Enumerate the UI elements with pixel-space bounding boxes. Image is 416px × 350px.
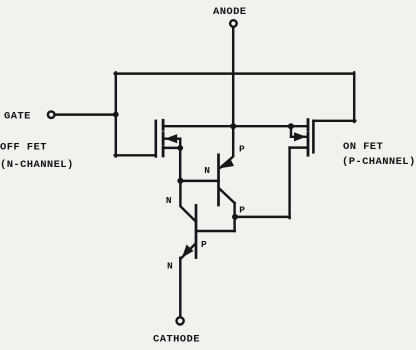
on FET gate plate [312,121,315,153]
npn emitter arrow [182,245,194,258]
on FET drain bar [290,146,308,148]
pnp collector diagonal [220,189,235,203]
off FET source bar [163,147,180,149]
wire: left gate horizontal to OFF-FET plate [115,154,156,156]
wire: N node to pnp base [180,180,218,182]
wire: left gate vertical [115,73,117,157]
node: anode-rail junction dot [230,123,236,129]
npn transistor base bar [195,205,198,257]
on FET body arrow [294,132,306,141]
wire: on FET body drop [290,126,292,137]
anode terminal [230,20,237,27]
wire: gate lead to junction [55,113,117,115]
svg-text:N: N [167,261,173,272]
off FET gate plate [155,121,158,156]
svg-text:CATHODE: CATHODE [153,334,200,346]
node: rail to on FET junction dot [288,123,294,129]
gate terminal [48,111,55,118]
node: P node dot [232,214,238,220]
svg-text:P: P [239,144,245,155]
svg-text:N: N [166,195,172,206]
on FET channel bottom segment [307,146,310,155]
pnp emitter wire from anode [221,126,234,167]
svg-text:OFF FET: OFF FET [0,142,47,154]
svg-text:P: P [239,205,245,216]
svg-text:(N-CHANNEL): (N-CHANNEL) [0,159,74,171]
pnp transistor base bar [217,155,220,205]
wire: P node horizontal [235,216,290,218]
svg-text:GATE: GATE [4,111,31,123]
off FET channel top segment [162,120,165,129]
wire: right gate horizontal to ON-FET plate [313,120,355,122]
wire: N node to npn base [180,181,195,222]
on FET body bar [291,136,306,138]
cathode terminal [177,317,184,324]
wire: anode vertical down to drain rail [232,27,234,126]
on FET channel middle segment [307,133,310,144]
svg-text:ON FET: ON FET [343,141,383,153]
node: source-body junction dot [177,145,183,151]
on FET channel top segment [307,120,310,130]
pnp emitter arrow [220,159,234,168]
node: N node dot [177,178,183,184]
wire: pnp collector vertical [233,203,235,231]
wire: top gate rail [115,72,355,74]
off FET body bar [165,137,180,139]
off FET channel bottom segment [162,147,165,156]
wire: drain rail [163,125,308,127]
wire: cathode vertical [179,258,181,317]
wire: on FET drain drop [288,148,290,218]
svg-text:P: P [201,239,207,250]
npn emitter diagonal [181,244,195,258]
wire: right gate vertical [353,73,355,122]
off FET body arrow [165,134,177,143]
wire: off FET source drop [179,139,181,182]
off FET channel middle segment [162,133,165,144]
wire: npn collector horizontal [196,230,235,232]
svg-text:ANODE: ANODE [213,6,247,18]
node: gate junction dot [113,112,119,118]
svg-text:(P-CHANNEL): (P-CHANNEL) [342,156,416,168]
svg-text:N: N [204,165,210,176]
